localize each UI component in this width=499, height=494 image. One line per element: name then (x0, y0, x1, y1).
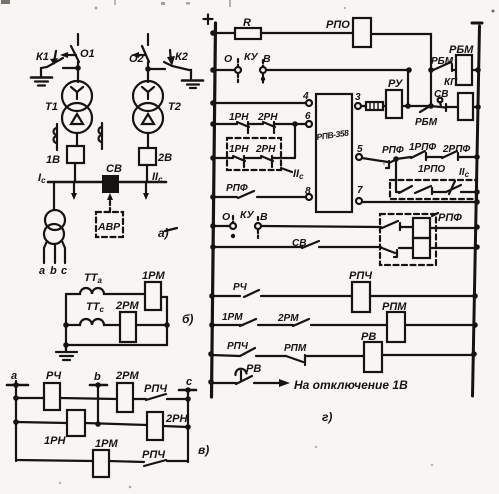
fault K1 arm (41, 58, 63, 77)
wire RU up to row2 (407, 70, 409, 106)
svg-text:РПЧ: РПЧ (227, 341, 249, 352)
relay RU coil (386, 90, 402, 118)
wire 1PM to right rail (161, 297, 167, 345)
svg-text:2РН: 2РН (257, 112, 278, 123)
svg-text:1РН: 1РН (229, 112, 249, 123)
AVR dashed arrow to CB (109, 200, 111, 212)
svg-text:2РМ: 2РМ (277, 313, 299, 324)
relay RV coil (364, 342, 382, 372)
svg-text:СВ: СВ (434, 89, 448, 100)
breaker O1 (71, 46, 79, 62)
wire top stub T2 (147, 34, 149, 45)
resistor R (235, 28, 261, 39)
node row2b (428, 67, 434, 73)
contact 1RPF (396, 151, 426, 160)
pin 8 (306, 194, 312, 200)
key KU lower: contact O (227, 225, 230, 227)
contact RBM upper (431, 62, 456, 71)
row11: node (209, 293, 215, 299)
relay RCh box (44, 383, 60, 410)
CT hook right (99, 123, 102, 149)
svg-text:КУ: КУ (240, 209, 254, 221)
contact 2RPF (442, 151, 458, 160)
arrow to trip (254, 382, 280, 384)
wire RPO to vertical (371, 34, 431, 106)
relay 1PM box v (93, 450, 109, 477)
resistor striped (366, 102, 383, 110)
aux transformer legs a b c (44, 241, 47, 263)
wire 1B to bus (74, 163, 76, 182)
contact RCh (244, 290, 259, 297)
svg-text:РПМ: РПМ (284, 343, 307, 354)
svg-text:АВР: АВР (97, 221, 121, 233)
svg-text:5: 5 (357, 144, 363, 155)
contact RBM lower (420, 106, 430, 112)
svg-text:b: b (94, 371, 101, 383)
left rail section b (65, 294, 67, 350)
row13: node (208, 351, 214, 357)
svg-text:2РН: 2РН (255, 144, 276, 155)
transformer T1 (62, 81, 92, 111)
svg-text:1РН: 1РН (44, 435, 66, 447)
bus I line (48, 181, 103, 184)
ground K2 (182, 79, 203, 82)
relay RPM coil (387, 312, 405, 342)
contact 2PH dashed row (261, 156, 273, 167)
right rail (473, 26, 480, 396)
contact RPF right (362, 158, 388, 162)
node O2 junction (148, 68, 165, 70)
svg-text:г): г) (322, 410, 332, 424)
contact RPF left (238, 191, 254, 198)
contact CB aux (438, 98, 443, 103)
row9: node (210, 223, 216, 229)
dashed box 1RPO (390, 180, 477, 199)
contact 1RPO row (396, 186, 446, 194)
relay 2PM box v (117, 383, 133, 412)
svg-text:В: В (260, 211, 268, 223)
svg-text:1РН: 1РН (229, 144, 249, 155)
svg-text:2В: 2В (157, 152, 172, 164)
relay RBM coil (456, 55, 472, 85)
svg-text:РБМ: РБМ (449, 44, 474, 56)
wire top stub T1 (77, 34, 79, 45)
wire T1 to 1B (76, 133, 78, 146)
relay RPV-358 box (316, 94, 352, 212)
pin 6 (306, 121, 312, 127)
row2 wire (16, 422, 67, 423)
svg-text:В: В (263, 53, 271, 65)
fault K2 arm (164, 62, 191, 79)
feeder arrow bus II (145, 182, 147, 194)
contact RPF in box lower (382, 248, 397, 257)
pin 4 (306, 100, 312, 106)
contact RPM row13 (286, 355, 305, 365)
contact 1PH dashed row (233, 156, 245, 167)
svg-text:2РПФ: 2РПФ (442, 144, 470, 155)
contact RPCh row1 (146, 394, 188, 400)
plus sign (204, 15, 213, 25)
svg-text:РПЧ: РПЧ (349, 270, 372, 282)
wire O1 to T1 (77, 62, 79, 82)
svg-text:1В: 1В (46, 154, 60, 166)
svg-text:РПФ: РПФ (382, 145, 404, 156)
node right mid (164, 322, 170, 328)
svg-text:КП: КП (444, 77, 458, 88)
wire pin7 to rail (362, 201, 476, 203)
relay 2PH box (147, 412, 163, 440)
svg-text:8: 8 (305, 186, 311, 197)
AVR dashed box (96, 212, 123, 237)
CT TTc coil (66, 319, 120, 325)
node left mid (63, 322, 69, 328)
svg-text:РПЧ: РПЧ (144, 383, 167, 395)
svg-text:РБМ: РБМ (431, 56, 454, 67)
svg-text:РПЧ: РПЧ (142, 449, 165, 461)
svg-text:РВ: РВ (246, 363, 261, 375)
row2: node (210, 67, 216, 73)
svg-text:2РМ: 2РМ (115, 300, 139, 312)
relay 1PH box (67, 410, 85, 436)
wire bus I to aux transformer (53, 182, 55, 210)
svg-text:РВ: РВ (361, 331, 376, 343)
svg-text:1РМ: 1РМ (142, 270, 165, 282)
pin 3 (355, 103, 361, 109)
svg-text:R: R (243, 17, 251, 29)
svg-text:2РМ: 2РМ (115, 370, 139, 382)
relay 1PM box (145, 282, 161, 310)
svg-text:a: a (39, 265, 45, 277)
contact 2PH (263, 122, 275, 133)
pin 5 (356, 154, 362, 160)
node RPF (393, 156, 399, 162)
svg-text:О1: О1 (80, 48, 95, 60)
key KU lower: contact V (255, 223, 261, 229)
svg-text:РЧ: РЧ (233, 282, 248, 293)
svg-text:К1: К1 (36, 51, 49, 63)
row7: node (210, 194, 216, 200)
svg-text:Т2: Т2 (168, 101, 181, 113)
svg-text:а): а) (158, 226, 169, 240)
aux transformer (45, 210, 65, 230)
row12: node (209, 322, 215, 328)
svg-text:СВ: СВ (106, 163, 122, 175)
svg-text:РПО: РПО (326, 19, 350, 31)
contact 1PM (240, 319, 256, 326)
ground section b (56, 345, 77, 360)
minus sign (472, 22, 482, 25)
contact IIc slashed (446, 181, 461, 194)
svg-text:c: c (186, 376, 192, 388)
svg-text:2РН: 2РН (165, 413, 188, 425)
node left bottom (63, 342, 69, 348)
svg-text:6: 6 (305, 111, 311, 122)
breaker 1B box (67, 146, 84, 163)
left rail (212, 23, 216, 397)
contact CB row10 (302, 241, 319, 248)
feeder arrow bus I (73, 182, 75, 194)
wire O2 to T2 (147, 62, 149, 82)
svg-text:РЧ: РЧ (46, 370, 61, 382)
row4: node (210, 121, 216, 127)
contact 1PH (237, 122, 249, 133)
svg-text:Т1: Т1 (45, 101, 58, 113)
contact 2PM (293, 319, 309, 326)
node row4 (292, 121, 298, 127)
svg-text:7: 7 (357, 185, 363, 196)
svg-text:1РПФ: 1РПФ (409, 142, 436, 153)
contact RPCh row13 (240, 348, 255, 356)
key KU upper: contact O (227, 69, 235, 71)
bottom wire (66, 344, 167, 346)
svg-text:4: 4 (302, 91, 309, 102)
row3 wire (16, 460, 93, 461)
svg-text:б): б) (182, 312, 193, 326)
pin 7 (356, 198, 362, 204)
svg-text:c: c (61, 265, 67, 277)
breaker O2 (142, 46, 149, 62)
dashed box 1PH 2PH (227, 138, 281, 170)
row3: node (210, 100, 216, 106)
svg-text:3: 3 (355, 92, 361, 103)
svg-text:РПФ: РПФ (226, 183, 248, 194)
relay RPO coil (353, 18, 371, 47)
wire 2PM to right rail (136, 324, 167, 326)
svg-text:На отключение 1В: На отключение 1В (294, 378, 408, 392)
fault arrow O2 (136, 54, 145, 56)
svg-text:1РМ: 1РМ (95, 438, 118, 450)
svg-text:1РМ: 1РМ (222, 312, 243, 323)
svg-text:b: b (50, 265, 57, 277)
ground K1 (31, 76, 52, 79)
node row2 (406, 67, 412, 73)
row5: node (210, 155, 216, 161)
fault arrow O1 (64, 54, 76, 56)
row1: node (210, 30, 216, 36)
CT TTa coil (66, 288, 145, 294)
wire T2 to 2B (147, 133, 149, 148)
row1 wire (16, 397, 44, 399)
dashed box RPF (380, 214, 436, 265)
transformer T2 (133, 81, 163, 111)
relay KP coil (458, 93, 473, 120)
node RU out (405, 103, 411, 109)
wire 2B to bus (146, 165, 148, 182)
relay RPCh coil (352, 282, 370, 312)
svg-text:КУ: КУ (244, 51, 258, 63)
breaker 2B box (139, 148, 156, 165)
bus II line (120, 181, 166, 184)
relay RPF coil upper (413, 218, 430, 238)
relay RPF coil lower (413, 238, 430, 258)
relay 2PM box (120, 312, 136, 342)
contact RPF in box upper (382, 221, 400, 230)
svg-text:О: О (224, 53, 232, 65)
breaker CB filled (102, 175, 119, 193)
svg-text:О2: О2 (129, 53, 144, 65)
CT hook left (54, 124, 57, 150)
svg-text:в): в) (198, 443, 209, 457)
node O1 junction (63, 67, 78, 69)
svg-text:О: О (222, 211, 230, 223)
wire up to row4 (294, 124, 296, 158)
svg-text:1РПО: 1РПО (418, 164, 445, 175)
key KU upper: contact V (260, 67, 266, 73)
svg-text:РУ: РУ (388, 78, 404, 90)
wire RPF down (395, 159, 397, 192)
svg-text:РБМ: РБМ (415, 117, 438, 128)
svg-text:К2: К2 (175, 51, 188, 63)
node vertical RPO (428, 103, 434, 109)
svg-text:РПМ: РПМ (382, 301, 407, 313)
row14: node (208, 379, 214, 385)
contact RV timed (236, 376, 252, 384)
pointer IIc (281, 168, 292, 172)
row10: node (210, 244, 216, 250)
svg-text:РПФ: РПФ (438, 212, 462, 224)
contact RPCh row3 (144, 460, 188, 466)
